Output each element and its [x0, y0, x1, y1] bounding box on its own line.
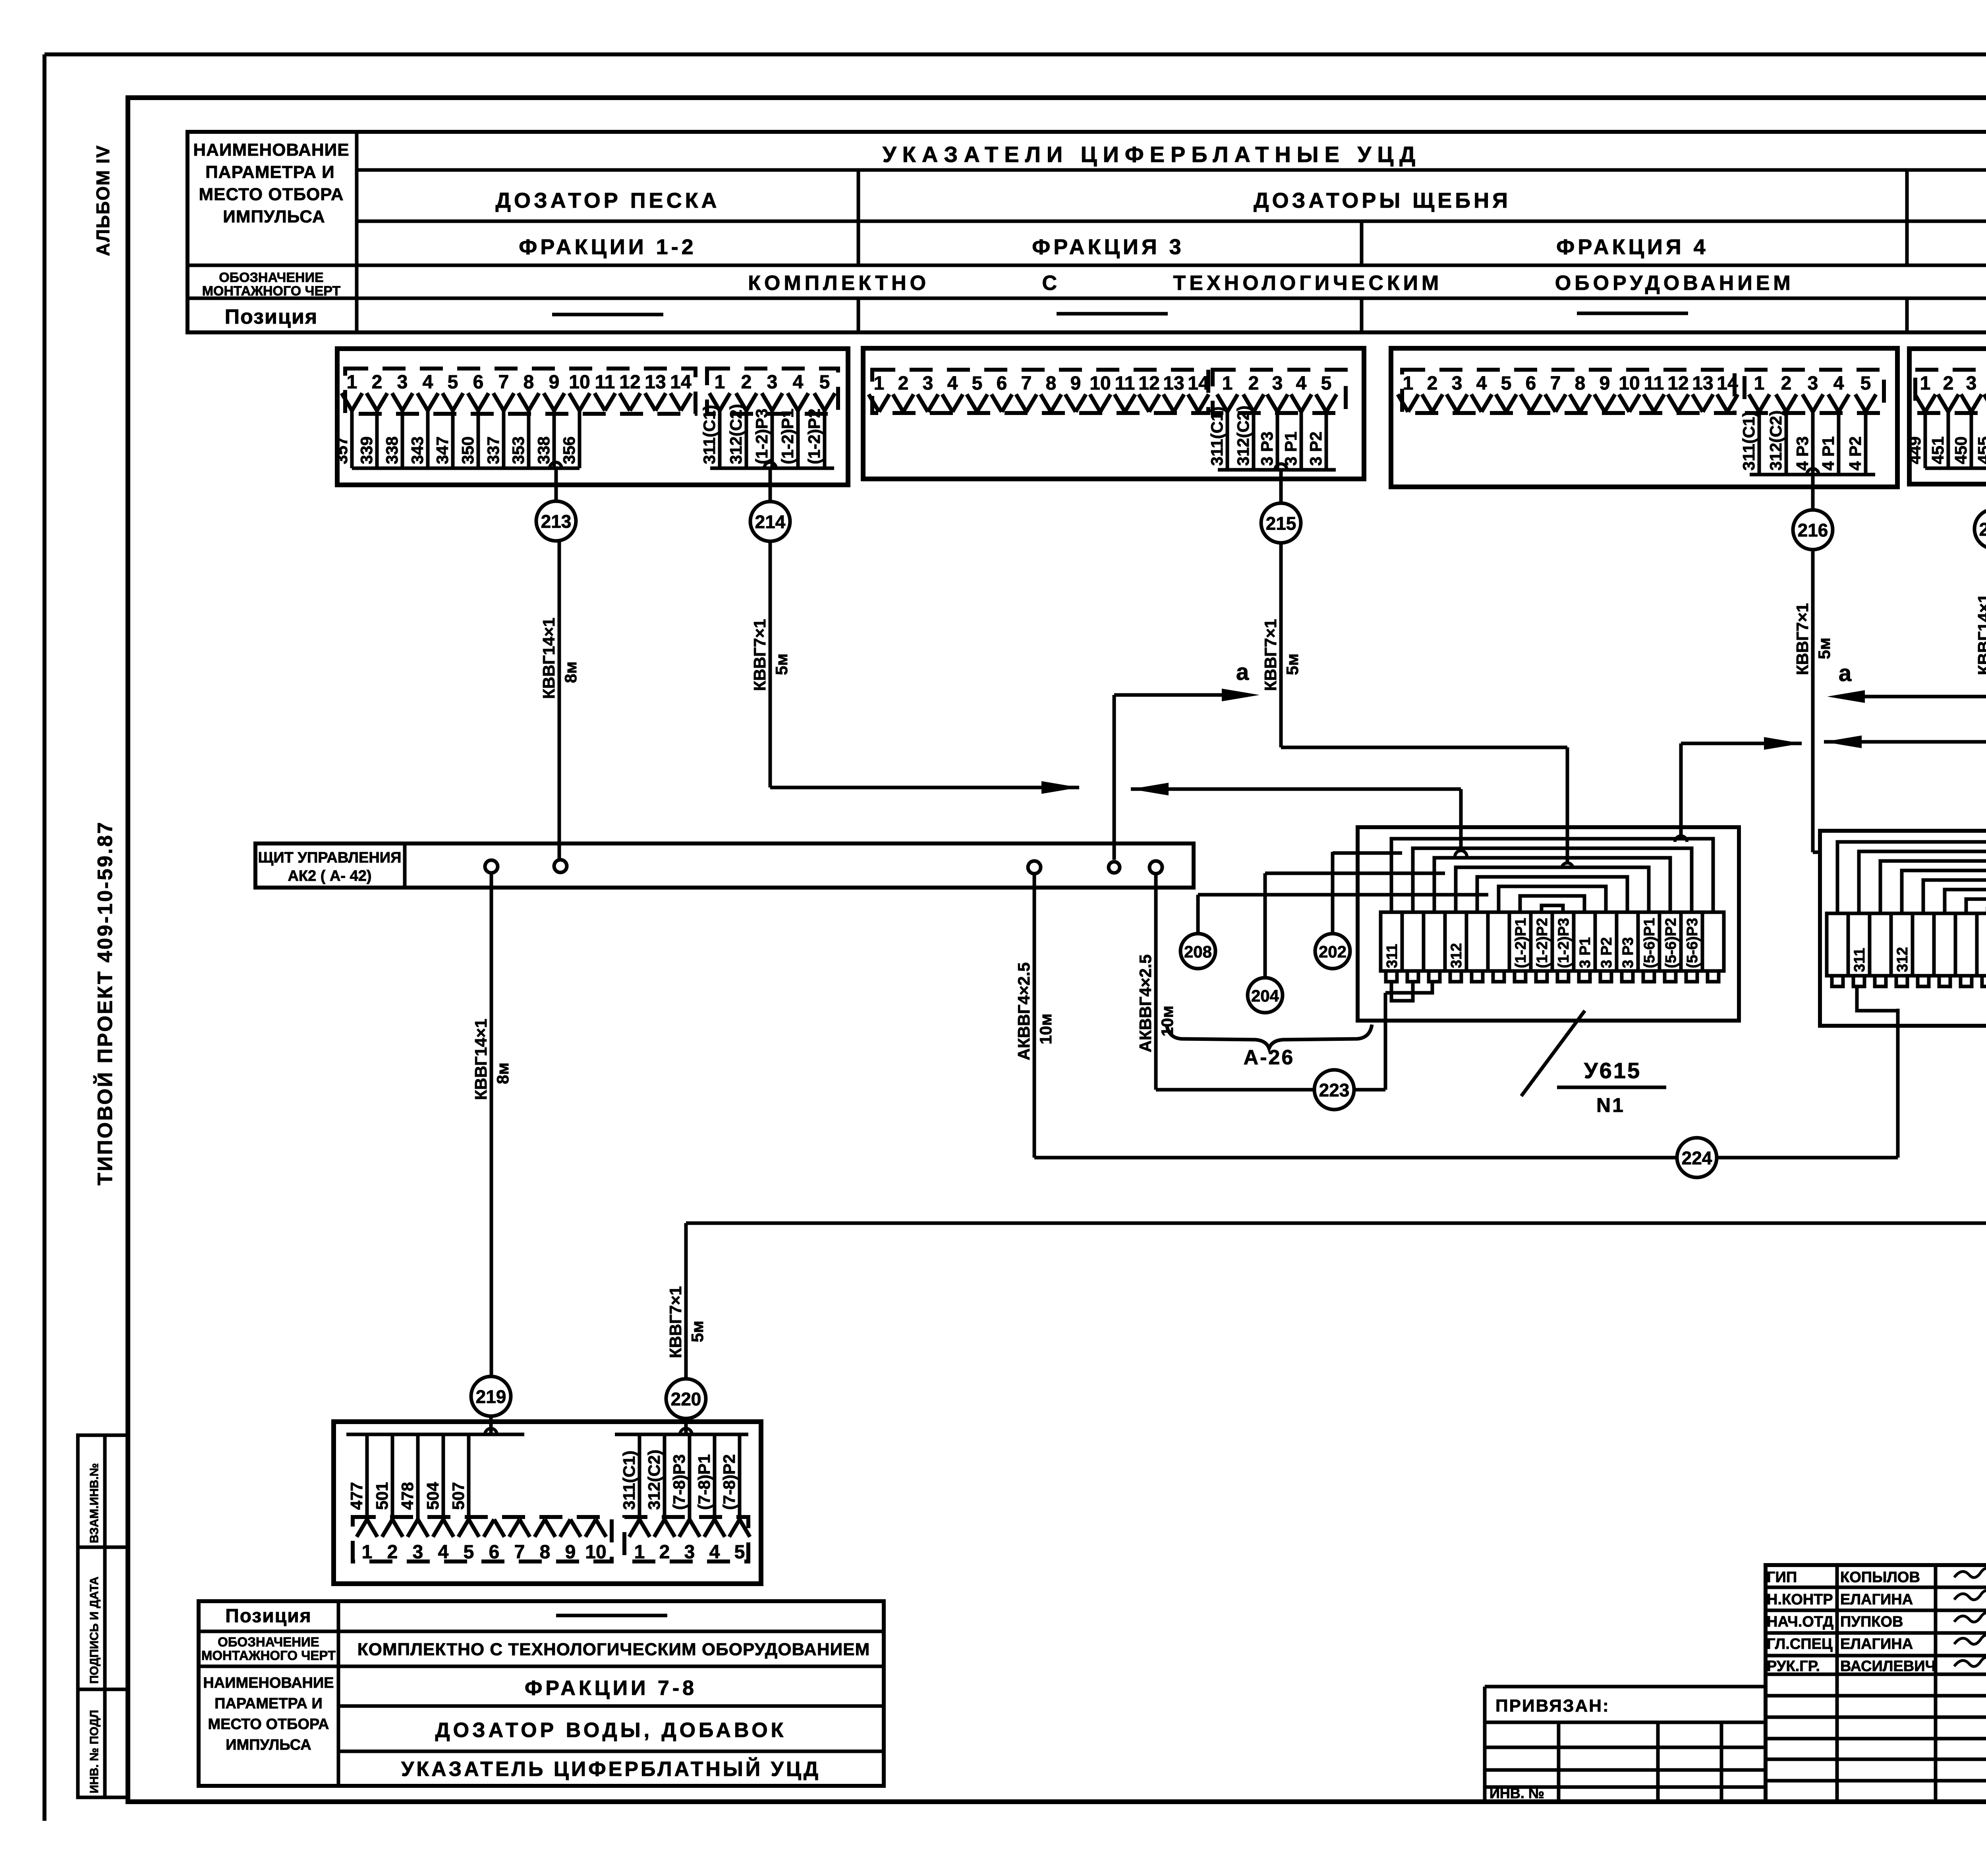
terminal block TB3 (Фракция 4) aux node — [1807, 469, 1819, 475]
У615 N1 cell pins — [1386, 971, 1397, 982]
circle 202 (А-26) — [1331, 852, 1335, 934]
svg-text:337: 337 — [484, 436, 502, 464]
TB5 wire terminal 2 — [391, 1434, 394, 1522]
svg-text:КВВГ7×1: КВВГ7×1 — [1793, 603, 1812, 675]
title block signature table — [1766, 1565, 1986, 1802]
terminal block TB3 (Фракция 4) aux wire bus — [1750, 473, 1875, 477]
svg-text:1: 1 — [874, 373, 885, 394]
terminal block TB2 (Фракция 3) aux wire bus — [1218, 468, 1336, 472]
svg-text:3 Р2: 3 Р2 — [1598, 937, 1615, 968]
АКВВГ cable to 224 loop — [1033, 874, 1036, 1158]
svg-text:9: 9 — [549, 372, 560, 393]
svg-text:ПАРАМЕТРА И: ПАРАМЕТРА И — [205, 162, 335, 182]
cable 216 run to У615 N2 — [1811, 550, 1815, 852]
svg-text:3: 3 — [1966, 373, 1977, 394]
svg-text:(7-8)Р1: (7-8)Р1 — [695, 1454, 713, 1510]
svg-text:311(C1): 311(C1) — [700, 405, 719, 464]
cable number circle 224 — [1677, 1138, 1717, 1177]
svg-text:5: 5 — [972, 373, 983, 394]
svg-text:ЩИТ УПРАВЛЕНИЯ: ЩИТ УПРАВЛЕНИЯ — [258, 849, 402, 866]
У615 N1 left tail wires to А-26 circles — [1333, 851, 1402, 855]
svg-text:6: 6 — [473, 372, 484, 393]
svg-text:(1-2)Р1: (1-2)Р1 — [778, 409, 797, 464]
svg-text:3 Р1: 3 Р1 — [1577, 937, 1594, 968]
terminal block TB3 (Фракция 4) aux wire 5 — [1864, 409, 1868, 475]
terminal block TB4 (Фракции 5-6) wire bus — [1925, 467, 1986, 470]
svg-text:КВВГ7×1: КВВГ7×1 — [750, 619, 769, 691]
terminal block TB1 (Фракции 1-2) wire from terminal 9 — [553, 408, 556, 468]
wire: TB1 aux bus to circle 214 — [769, 468, 772, 502]
cable number circle 219 — [471, 1376, 511, 1416]
panel terminal for 219 — [485, 860, 498, 873]
panel terminal for 223 line — [1149, 861, 1162, 874]
svg-text:(5-6)Р1: (5-6)Р1 — [1641, 918, 1658, 968]
terminal block TB1 (Фракции 1-2) aux node — [764, 462, 776, 468]
TB5 aux wire 4 — [713, 1434, 717, 1522]
svg-text:312(C2): 312(C2) — [726, 404, 745, 464]
svg-text:3 Р1: 3 Р1 — [1281, 432, 1300, 466]
svg-text:13: 13 — [1692, 373, 1713, 394]
cable 213 run: circle to control panel — [558, 541, 561, 860]
terminal block TB1 (Фракции 1-2) aux wire 5 — [823, 408, 827, 468]
cable 214 run — [769, 541, 772, 787]
У615 N2 internal jumper loops — [1837, 842, 1986, 913]
svg-text:224: 224 — [1682, 1148, 1712, 1168]
svg-text:(5-6)Р2: (5-6)Р2 — [1663, 918, 1679, 968]
svg-text:7: 7 — [1550, 373, 1561, 394]
svg-text:12: 12 — [1667, 373, 1688, 394]
control panel box ЩИТ УПРАВЛЕНИЯ АК2 (А-42) — [255, 843, 1194, 888]
svg-text:4: 4 — [947, 373, 958, 394]
svg-text:2: 2 — [387, 1542, 398, 1563]
brace А-26 under circles — [1167, 1025, 1372, 1048]
svg-text:(5-6)Р3: (5-6)Р3 — [1684, 918, 1701, 968]
svg-text:НАЧ.ОТД: НАЧ.ОТД — [1767, 1614, 1833, 1630]
svg-text:10: 10 — [1090, 373, 1111, 394]
terminal block TB1 (Фракции 1-2) wire from terminal 3 — [401, 408, 404, 468]
cable number circle 220 — [666, 1379, 706, 1419]
svg-text:478: 478 — [398, 1482, 417, 1510]
svg-text:202: 202 — [1319, 942, 1347, 961]
svg-text:КВВГ14×1: КВВГ14×1 — [1974, 594, 1986, 675]
svg-text:Позиция: Позиция — [225, 305, 318, 328]
position dashes — [552, 313, 663, 317]
svg-text:5: 5 — [819, 372, 830, 393]
svg-text:2: 2 — [1248, 373, 1259, 394]
terminal block TB3 (Фракция 4) 5-terminal dashed box — [1745, 370, 1884, 413]
svg-text:1: 1 — [362, 1542, 373, 1563]
224 line continuation to У615 N2 — [1717, 1156, 1898, 1160]
svg-text:ЕЛАГИНА: ЕЛАГИНА — [1840, 1636, 1913, 1652]
terminal block TB3 (Фракция 4) aux wire 2 — [1785, 409, 1788, 475]
svg-text:АЛЬБОМ IV: АЛЬБОМ IV — [93, 145, 113, 256]
svg-text:5: 5 — [1860, 373, 1871, 394]
svg-text:1: 1 — [1403, 373, 1414, 394]
terminal block TB1 (Фракции 1-2) wire from terminal 5 — [451, 408, 455, 468]
TB5 aux wire 1 — [638, 1434, 641, 1522]
terminal block TB4 (Фракции 5-6) wire from terminal 3 — [1970, 409, 1973, 468]
svg-text:7: 7 — [514, 1542, 525, 1563]
svg-text:13: 13 — [1163, 373, 1184, 394]
svg-text:(1-2)Р1: (1-2)Р1 — [1513, 918, 1529, 968]
wire: circle 219 to lower block bus — [489, 1417, 493, 1434]
svg-text:219: 219 — [476, 1386, 506, 1407]
svg-text:1: 1 — [1920, 373, 1931, 394]
svg-text:8: 8 — [540, 1542, 551, 1563]
223 line continuation to У615 N1 — [1353, 1088, 1385, 1092]
svg-text:ФРАКЦИЯ 3: ФРАКЦИЯ 3 — [1032, 235, 1184, 259]
svg-text:ИНВ. №: ИНВ. № — [1489, 1785, 1544, 1801]
TB5 wire terminal 5 — [467, 1434, 471, 1522]
svg-text:2: 2 — [659, 1542, 670, 1563]
svg-text:3: 3 — [1452, 373, 1462, 394]
svg-text:УКАЗАТЕЛИ ЦИФЕРБЛАТНЫЕ УЦД: УКАЗАТЕЛИ ЦИФЕРБЛАТНЫЕ УЦД — [883, 142, 1421, 167]
terminal block TB3 (Фракция 4) 14-terminal dashed box — [1402, 370, 1735, 413]
svg-text:8: 8 — [524, 372, 534, 393]
cable number circle 215 — [1261, 503, 1301, 543]
svg-text:311(C1): 311(C1) — [620, 1451, 638, 1510]
terminal block TB1 (Фракции 1-2) wire bus — [352, 467, 580, 470]
TB5 aux wire 5 — [738, 1434, 742, 1522]
svg-text:5: 5 — [1321, 373, 1332, 394]
svg-text:208: 208 — [1184, 942, 1212, 961]
terminal block TB1 (Фракции 1-2) aux wire 2 — [745, 408, 748, 468]
terminal block TB1 (Фракции 1-2) aux wire 1 — [718, 408, 722, 468]
TB5 5-terminal dashed box — [624, 1517, 748, 1561]
svg-text:НАИМЕНОВАНИЕ: НАИМЕНОВАНИЕ — [193, 140, 349, 160]
svg-text:8: 8 — [1575, 373, 1586, 394]
svg-text:1: 1 — [1222, 373, 1233, 394]
svg-text:УКАЗАТЕЛЬ ЦИФЕРБЛАТНЫЙ УЦ: УКАЗАТЕЛЬ ЦИФЕРБЛАТНЫЙ УЦД — [401, 1757, 821, 1781]
cable 218 run after break — [1681, 742, 1802, 745]
svg-text:312: 312 — [1448, 943, 1465, 968]
svg-text:5: 5 — [464, 1542, 474, 1563]
АКВВГ cable to 223 loop — [1154, 874, 1158, 1090]
У615 N2 cell pins — [1832, 976, 1843, 986]
terminal block TB1 (Фракции 1-2) node — [550, 462, 562, 468]
svg-text:12: 12 — [1138, 373, 1159, 394]
connector assembly У615 N1 box — [1358, 827, 1739, 1021]
svg-text:ПУПКОВ: ПУПКОВ — [1840, 1614, 1903, 1630]
svg-text:КОМПЛЕКТНО С ТЕХНОЛОГИЧЕСКИМ О: КОМПЛЕКТНО С ТЕХНОЛОГИЧЕСКИМ ОБОРУДОВАНИ… — [748, 272, 1794, 295]
terminal block TB1 (Фракции 1-2) aux wire bus — [710, 467, 834, 470]
terminal block TB1 (Фракции 1-2) 5-terminal dashed box — [707, 369, 838, 414]
lower table dash — [556, 1614, 667, 1617]
svg-text:ВЗАМ.ИНВ.№: ВЗАМ.ИНВ.№ — [88, 1463, 101, 1543]
svg-text:312: 312 — [1894, 947, 1911, 972]
svg-text:ПАРАМЕТРА И: ПАРАМЕТРА И — [214, 1695, 323, 1712]
svg-text:3 Р3: 3 Р3 — [1258, 432, 1276, 466]
svg-text:220: 220 — [671, 1389, 701, 1409]
svg-text:477: 477 — [347, 1482, 366, 1510]
svg-text:8м: 8м — [493, 1063, 512, 1084]
svg-text:3: 3 — [413, 1542, 423, 1563]
TB5 wire terminal 1 — [365, 1434, 369, 1522]
terminal block TB4 (Фракции 5-6) wire from terminal 2 — [1947, 409, 1950, 468]
svg-text:а: а — [1839, 660, 1852, 686]
svg-text:3 Р3: 3 Р3 — [1620, 937, 1636, 968]
svg-text:(7-8)Р2: (7-8)Р2 — [720, 1454, 738, 1510]
lower table — [199, 1601, 884, 1786]
svg-text:4: 4 — [1833, 373, 1844, 394]
svg-text:1: 1 — [715, 372, 725, 393]
svg-text:А-26: А-26 — [1244, 1046, 1295, 1069]
svg-text:215: 215 — [1266, 513, 1296, 534]
continuation wire а from control panel — [1113, 695, 1116, 860]
wire: circle 220 to lower block bus — [684, 1419, 688, 1434]
circle 204 (А-26) — [1263, 873, 1267, 978]
У615 N1 bottom loop to 223 — [1385, 982, 1432, 993]
svg-text:2: 2 — [898, 373, 909, 394]
TB5 right bus — [615, 1433, 748, 1436]
svg-text:217: 217 — [1979, 519, 1986, 540]
svg-text:10м: 10м — [1036, 1013, 1055, 1044]
svg-text:204: 204 — [1251, 986, 1279, 1005]
У615 N2 terminal cells — [1827, 913, 1848, 976]
terminal block TB4 (Фракции 5-6) — [1909, 349, 1986, 484]
header table — [187, 132, 1986, 332]
svg-text:312(C2): 312(C2) — [1234, 405, 1252, 466]
svg-text:4 Р1: 4 Р1 — [1819, 436, 1837, 471]
terminal block TB4 (Фракции 5-6) 14-terminal dashed box — [1915, 370, 1986, 413]
svg-text:МЕСТО ОТБОРА: МЕСТО ОТБОРА — [199, 185, 344, 204]
svg-text:14: 14 — [670, 372, 692, 393]
svg-text:312(C2): 312(C2) — [645, 1449, 663, 1510]
svg-text:347: 347 — [433, 436, 452, 464]
svg-text:ФРАКЦИИ 7-8: ФРАКЦИИ 7-8 — [525, 1677, 697, 1700]
svg-text:3: 3 — [397, 372, 408, 393]
svg-text:3: 3 — [767, 372, 778, 393]
cable number circle 223 — [1314, 1070, 1354, 1110]
svg-text:4: 4 — [709, 1542, 720, 1563]
terminal block TB1 (Фракции 1-2) aux wire 4 — [796, 408, 800, 468]
svg-text:(1-2)Р3: (1-2)Р3 — [1555, 918, 1572, 968]
svg-text:1: 1 — [634, 1542, 645, 1563]
svg-text:ФРАКЦИИ 1-2: ФРАКЦИИ 1-2 — [519, 235, 696, 259]
svg-text:10: 10 — [569, 372, 590, 393]
У615 N1 terminal cells — [1381, 912, 1402, 971]
svg-text:МЕСТО ОТБОРА: МЕСТО ОТБОРА — [208, 1716, 329, 1733]
svg-text:КВВГ7×1: КВВГ7×1 — [1261, 619, 1280, 691]
svg-text:13: 13 — [645, 372, 666, 393]
TB5 wire terminal 4 — [442, 1434, 445, 1522]
terminal block TB5 (Фракции 7-8) — [334, 1422, 761, 1584]
terminal block TB1 (Фракции 1-2) wire from terminal 4 — [426, 408, 430, 468]
svg-text:450: 450 — [1951, 436, 1970, 464]
cable number circle 216 — [1793, 510, 1833, 550]
terminal block TB3 (Фракция 4) — [1391, 348, 1897, 487]
svg-text:338: 338 — [534, 436, 553, 464]
svg-text:ГИП: ГИП — [1767, 1569, 1797, 1586]
svg-text:(1-2)Р3: (1-2)Р3 — [752, 409, 771, 464]
terminal block TB2 (Фракция 3) 5-terminal dashed box — [1213, 370, 1346, 413]
svg-text:504: 504 — [423, 1482, 442, 1510]
svg-text:ДОЗАТОР ПЕСКА: ДОЗАТОР ПЕСКА — [495, 189, 720, 212]
svg-text:ИМПУЛЬСА: ИМПУЛЬСА — [226, 1737, 311, 1753]
panel terminal for а wire — [1109, 862, 1120, 873]
svg-text:ВАСИЛЕВИЧ: ВАСИЛЕВИЧ — [1840, 1658, 1936, 1675]
svg-text:АКВВГ4×2.5: АКВВГ4×2.5 — [1136, 954, 1155, 1052]
cable 219 run: panel to circle 219 — [490, 873, 493, 1376]
svg-text:КВВГ14×1: КВВГ14×1 — [471, 1019, 490, 1100]
svg-text:311(C1): 311(C1) — [1739, 411, 1758, 471]
terminal block TB1 (Фракции 1-2) wire from terminal 7 — [502, 408, 506, 468]
svg-text:КВВГ14×1: КВВГ14×1 — [539, 618, 558, 699]
svg-text:4 Р3: 4 Р3 — [1793, 436, 1812, 471]
svg-text:5: 5 — [1501, 373, 1512, 394]
terminal block TB2 (Фракция 3) — [863, 348, 1364, 479]
svg-text:311(C1): 311(C1) — [1207, 407, 1226, 466]
svg-text:N1: N1 — [1596, 1094, 1625, 1116]
svg-text:6: 6 — [489, 1542, 500, 1563]
svg-text:7: 7 — [1021, 373, 1032, 394]
svg-text:ТИПОВОЙ ПРОЕКТ 409-10-59.: ТИПОВОЙ ПРОЕКТ 409-10-59.87 — [93, 820, 117, 1185]
cable number circle 217 — [1974, 509, 1986, 549]
TB5 aux wire 3 — [688, 1434, 692, 1522]
svg-text:5м: 5м — [1283, 654, 1302, 675]
terminal block TB1 (Фракции 1-2) 14-terminal dashed box — [345, 369, 695, 414]
svg-text:501: 501 — [373, 1482, 391, 1510]
svg-text:338: 338 — [383, 436, 401, 464]
svg-text:311: 311 — [1851, 948, 1868, 972]
outer sheet frame — [44, 52, 1986, 56]
terminal block TB1 (Фракции 1-2) wire from terminal 1 — [350, 408, 354, 468]
svg-text:КОПЫЛОВ: КОПЫЛОВ — [1840, 1569, 1920, 1586]
svg-text:214: 214 — [755, 511, 786, 532]
svg-text:1: 1 — [347, 372, 357, 393]
svg-text:451: 451 — [1928, 436, 1947, 464]
svg-text:3: 3 — [1808, 373, 1818, 394]
svg-text:ГЛ.СПЕЦ: ГЛ.СПЕЦ — [1767, 1636, 1833, 1652]
wire: TB3 aux bus to circle 216 — [1811, 475, 1815, 510]
svg-text:ПОДПИСЬ И ДАТА: ПОДПИСЬ И ДАТА — [88, 1577, 101, 1684]
TB5 left bus — [346, 1433, 524, 1436]
terminal block TB2 (Фракция 3) aux wire 1 — [1226, 409, 1229, 470]
svg-text:2: 2 — [372, 372, 383, 393]
svg-text:2: 2 — [1427, 373, 1438, 394]
svg-text:455: 455 — [1974, 436, 1986, 464]
svg-text:10: 10 — [585, 1542, 606, 1563]
svg-text:КОМПЛЕКТНО С ТЕХНОЛОГИЧЕСКИМ О: КОМПЛЕКТНО С ТЕХНОЛОГИЧЕСКИМ ОБОРУДОВАНИ… — [357, 1640, 870, 1659]
svg-text:9: 9 — [1600, 373, 1610, 394]
svg-text:507: 507 — [449, 1482, 468, 1510]
svg-text:ОБОЗНАЧЕНИЕ: ОБОЗНАЧЕНИЕ — [219, 270, 323, 285]
svg-text:339: 339 — [357, 436, 376, 464]
terminal block TB2 (Фракция 3) aux wire 4 — [1300, 409, 1303, 470]
Привязан table — [1485, 1685, 1766, 1689]
svg-text:4: 4 — [438, 1542, 449, 1563]
terminal block TB1 (Фракции 1-2) — [337, 349, 848, 485]
svg-text:2: 2 — [1781, 373, 1792, 394]
svg-text:3: 3 — [1272, 373, 1283, 394]
left margin strip — [78, 1435, 128, 1797]
svg-text:ДОЗАТОРЫ ЩЕБНЯ: ДОЗАТОРЫ ЩЕБНЯ — [1254, 189, 1511, 212]
svg-text:(7-8)Р3: (7-8)Р3 — [670, 1454, 688, 1510]
terminal block TB1 (Фракции 1-2) wire from terminal 10 — [578, 408, 582, 468]
cable 215 run — [1279, 543, 1283, 747]
svg-text:ОБОЗНАЧЕНИЕ: ОБОЗНАЧЕНИЕ — [218, 1635, 319, 1649]
svg-text:449: 449 — [1905, 436, 1924, 464]
svg-text:7: 7 — [498, 372, 509, 393]
svg-text:14: 14 — [1717, 373, 1738, 394]
svg-text:213: 213 — [541, 511, 572, 532]
svg-text:АК2 ( А- 42): АК2 ( А- 42) — [288, 868, 371, 884]
svg-text:а: а — [1236, 659, 1249, 685]
svg-text:5м: 5м — [688, 1321, 707, 1342]
svg-text:АКВВГ4×2.5: АКВВГ4×2.5 — [1014, 962, 1033, 1060]
svg-text:357: 357 — [332, 436, 351, 464]
svg-text:Позиция: Позиция — [225, 1606, 312, 1627]
svg-text:311: 311 — [1384, 944, 1401, 968]
svg-text:(1-2)Р2: (1-2)Р2 — [1534, 918, 1551, 968]
svg-text:216: 216 — [1798, 520, 1828, 540]
svg-text:КВВГ7×1: КВВГ7×1 — [666, 1286, 685, 1358]
svg-text:3: 3 — [923, 373, 933, 394]
cable number circle 214 — [750, 502, 790, 541]
TB5 10-terminal dashed box — [353, 1517, 612, 1561]
svg-text:ДОЗАТОР ВОДЫ, ДОБАВОК: ДОЗАТОР ВОДЫ, ДОБАВОК — [435, 1719, 787, 1742]
svg-text:5: 5 — [448, 372, 458, 393]
terminal block TB1 (Фракции 1-2) aux wire 3 — [771, 408, 774, 468]
svg-text:11: 11 — [1115, 373, 1135, 394]
svg-text:10: 10 — [1619, 373, 1640, 394]
circle 208 (А-26) — [1196, 895, 1200, 934]
svg-text:ИНВ. № ПОДЛ: ИНВ. № ПОДЛ — [88, 1710, 101, 1793]
connector assembly У615 N2 box — [1820, 831, 1986, 1026]
svg-text:НАИМЕНОВАНИЕ: НАИМЕНОВАНИЕ — [203, 1675, 334, 1691]
svg-text:2: 2 — [741, 372, 752, 393]
cable 214 run continuation after break — [1131, 783, 1169, 795]
svg-text:223: 223 — [1319, 1080, 1350, 1100]
panel terminal for 224 line — [1028, 861, 1041, 874]
У615 N1 internal jumper loops — [1391, 839, 1713, 912]
cable 220 run: lower block to У615 N2 — [684, 1223, 688, 1378]
TB5 aux wire 2 — [663, 1434, 667, 1522]
terminal block TB2 (Фракция 3) aux wire 3 — [1276, 409, 1279, 470]
svg-text:ПРИВЯЗАН:: ПРИВЯЗАН: — [1495, 1696, 1610, 1716]
svg-text:МОНТАЖНОГО ЧЕРТ: МОНТАЖНОГО ЧЕРТ — [202, 284, 341, 299]
svg-text:4: 4 — [1296, 373, 1307, 394]
terminal block TB2 (Фракция 3) aux node — [1275, 464, 1287, 470]
svg-text:4 Р2: 4 Р2 — [1846, 436, 1864, 471]
svg-text:343: 343 — [408, 436, 427, 464]
svg-text:9: 9 — [565, 1542, 576, 1563]
cable number circle 213 — [536, 501, 576, 541]
svg-text:11: 11 — [1644, 373, 1664, 394]
svg-text:ЕЛАГИНА: ЕЛАГИНА — [1840, 1591, 1913, 1608]
svg-text:353: 353 — [509, 436, 527, 464]
terminal block TB1 (Фракции 1-2) wire from terminal 8 — [527, 408, 531, 468]
terminal block TB2 (Фракция 3) aux wire 5 — [1325, 409, 1328, 470]
terminal block TB2 (Фракция 3) aux wire 2 — [1252, 409, 1256, 470]
svg-text:ИМПУЛЬСА: ИМПУЛЬСА — [223, 207, 325, 226]
svg-text:РУК.ГР.: РУК.ГР. — [1767, 1658, 1820, 1675]
terminal block TB3 (Фракция 4) aux wire 4 — [1837, 409, 1841, 475]
svg-text:14: 14 — [1188, 373, 1209, 394]
svg-text:11: 11 — [595, 372, 615, 393]
svg-text:2: 2 — [1943, 373, 1954, 394]
svg-text:4: 4 — [423, 372, 433, 393]
svg-text:ФРАКЦИЯ 4: ФРАКЦИЯ 4 — [1556, 235, 1708, 259]
svg-text:12: 12 — [619, 372, 640, 393]
svg-text:5м: 5м — [1815, 638, 1833, 659]
svg-text:Н.КОНТР: Н.КОНТР — [1767, 1591, 1833, 1608]
У615 N2 bottom loop to 224 — [1857, 986, 1898, 1011]
svg-text:4: 4 — [1476, 373, 1487, 394]
svg-text:8: 8 — [1046, 373, 1057, 394]
svg-text:5м: 5м — [772, 654, 791, 675]
svg-text:5: 5 — [734, 1542, 745, 1563]
